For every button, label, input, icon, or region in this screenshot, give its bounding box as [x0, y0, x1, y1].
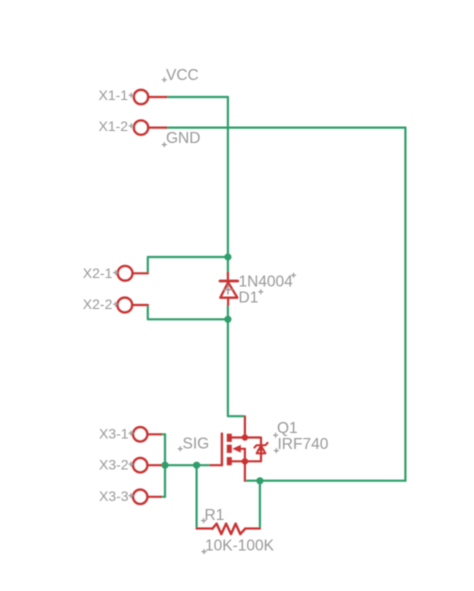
pad X3-3: [133, 490, 147, 504]
wire X3-3 to bus: [161, 496, 166, 498]
diode D1 origin cross: [224, 285, 232, 294]
wire GND right vertical: [404, 128, 406, 481]
wire X3 vertical bus: [164, 434, 166, 497]
svg-text:IRF740: IRF740: [278, 436, 329, 453]
origin cross 10K-100K: [202, 549, 207, 554]
transistor Q1 gate bar: [221, 434, 223, 466]
wire GND net: X1-2 across top to right side: [166, 126, 405, 128]
junction node SIG / R1 branch: [193, 462, 200, 469]
svg-text:X1-2: X1-2: [99, 118, 129, 134]
origin cross X3-3: [129, 493, 134, 498]
origin cross D1: [258, 289, 263, 294]
transistor Q1 channel segment middle: [227, 445, 232, 453]
svg-text:D1: D1: [239, 289, 259, 306]
diode D1 anode stub: [227, 298, 229, 305]
origin cross GND: [162, 142, 167, 147]
pad X2-1: [118, 266, 133, 281]
transistor Q1 origin cross: [258, 447, 264, 453]
origin cross X3-2: [129, 462, 134, 467]
transistor Q1 drain lead: [232, 416, 245, 437]
svg-text:SIG: SIG: [183, 435, 210, 452]
wire SIG branch down to resistor left: [196, 465, 198, 528]
pin lead X3-3: [147, 496, 161, 498]
pin lead X1-1: [148, 96, 167, 98]
resistor R1 zigzag: [212, 524, 245, 535]
origin cross 1N4004: [291, 273, 296, 278]
wire VCC net: X1-1 to vertical bus: [166, 96, 228, 98]
resistor R1 right lead: [245, 527, 260, 529]
svg-text:X2-1: X2-1: [83, 265, 113, 281]
svg-text:X1-1: X1-1: [99, 87, 129, 103]
diode D1 cathode stub: [227, 273, 229, 282]
pin lead X3-1: [147, 433, 161, 435]
svg-text:Q1: Q1: [277, 420, 298, 437]
origin cross SIG: [178, 446, 183, 451]
diode D1 triangle: [220, 282, 237, 297]
transistor Q1 body diode cathode (bent): [254, 443, 267, 448]
svg-text:X2-2: X2-2: [83, 296, 113, 312]
diode D1 cathode bar: [220, 280, 238, 283]
pin lead X3-2: [147, 464, 161, 466]
wire X2-2 to diode bottom junction: [148, 305, 228, 319]
resistor R1 left lead: [197, 527, 213, 529]
wire X3-1 to bus: [161, 433, 166, 435]
junction node VCC/X2-2: [224, 316, 231, 323]
wire GND bottom horizontal to source: [245, 480, 406, 482]
svg-text:R1: R1: [205, 507, 225, 524]
wire VCC vertical bus upper (to diode cathode stub): [227, 97, 229, 273]
transistor Q1 substrate arrow line: [240, 448, 245, 450]
pad X3-1: [133, 427, 147, 441]
transistor Q1 gate lead: [211, 464, 222, 466]
pad X1-2: [134, 121, 148, 135]
svg-text:X3-3: X3-3: [99, 488, 129, 504]
pin lead X2-2: [132, 304, 148, 306]
origin cross X1-1: [129, 93, 134, 98]
svg-text:10K-100K: 10K-100K: [205, 537, 275, 554]
origin cross VCC: [162, 77, 167, 82]
origin cross R1: [201, 518, 206, 523]
wire SIG net: X3-2 to gate: [161, 464, 211, 466]
origin cross IRF740: [274, 448, 279, 453]
pad X2-2: [118, 298, 133, 313]
transistor Q1 source lead: [232, 449, 245, 481]
junction node VCC/X2-1: [224, 253, 231, 260]
origin cross X2-1: [113, 270, 118, 275]
transistor Q1 body diode loop: [245, 438, 261, 462]
junction node GND / R1 branch: [256, 477, 263, 484]
transistor Q1 body diode triangle: [257, 446, 266, 454]
svg-text:GND: GND: [166, 130, 200, 147]
svg-text:X3-2: X3-2: [99, 456, 129, 472]
transistor Q1 channel segment top: [227, 434, 232, 442]
junction node source: [242, 458, 248, 464]
svg-text:X3-1: X3-1: [99, 425, 129, 441]
pin lead X1-2: [148, 126, 167, 128]
junction node X3 bus / SIG: [161, 462, 168, 469]
wire VCC vertical bus lower (diode anode to drain bend): [228, 305, 244, 416]
svg-text:1N4004: 1N4004: [239, 273, 294, 290]
transistor Q1 channel segment bottom: [227, 457, 232, 465]
pad X3-2: [133, 458, 147, 472]
pad X1-1: [134, 90, 148, 104]
wire resistor right up to GND bottom: [259, 481, 261, 529]
svg-text:VCC: VCC: [166, 67, 199, 84]
origin cross Q1: [273, 433, 278, 438]
origin cross X1-2: [129, 123, 134, 128]
pin lead X2-1: [132, 272, 148, 274]
junction node drain: [242, 434, 248, 440]
transistor Q1 substrate arrowhead: [232, 445, 241, 453]
wire X2-1 to diode top junction: [148, 257, 228, 273]
origin cross X2-2: [113, 302, 118, 307]
origin cross X3-1: [129, 431, 134, 436]
